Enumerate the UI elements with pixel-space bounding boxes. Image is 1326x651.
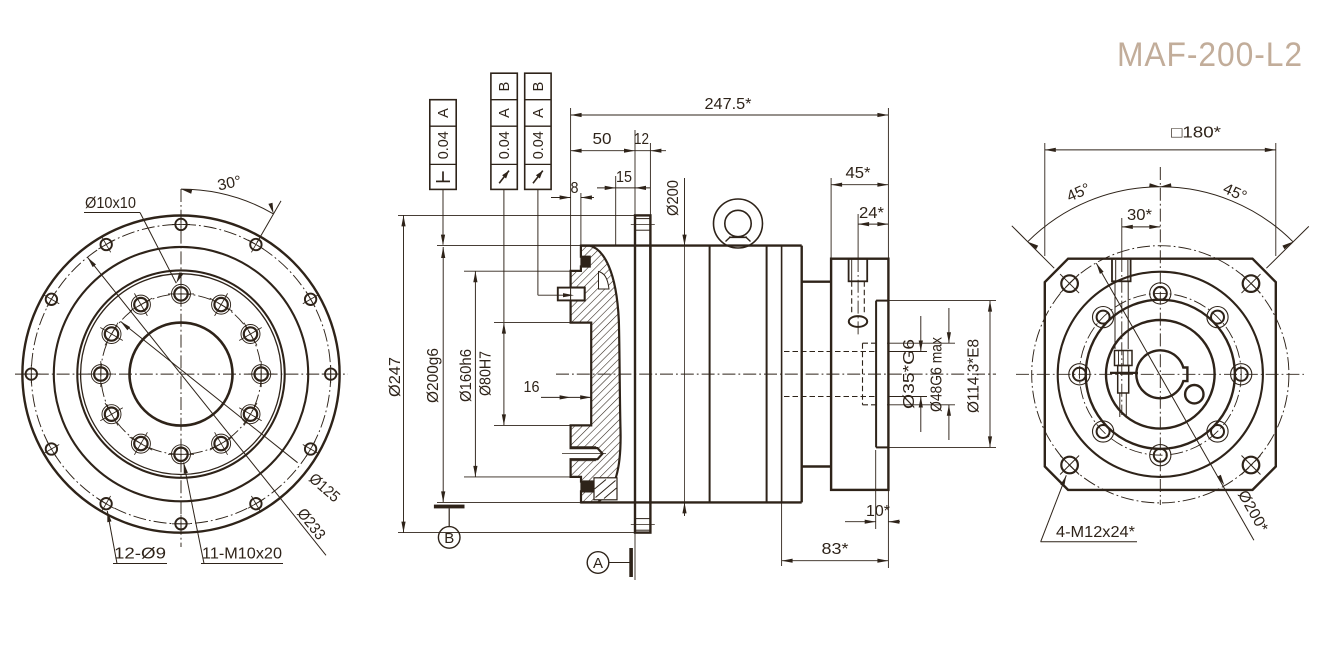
bore D35 with keyway (1136, 350, 1187, 398)
hole 9mm at 240deg (100, 498, 111, 509)
hole 9mm at 180deg (26, 368, 37, 379)
svg-text:MAF-200-L2: MAF-200-L2 (1117, 36, 1303, 74)
dim square180 (1044, 143, 1046, 256)
left view outer circle D247 (22, 216, 339, 533)
rear hole at 180deg (1069, 364, 1090, 385)
recess D114.3 (875, 301, 877, 448)
hole M10 at 210deg (105, 408, 118, 421)
hole 9mm at 150deg (46, 294, 57, 305)
hole M10 at 330deg (244, 408, 257, 421)
svg-text:B: B (497, 82, 513, 92)
dim 247.5 (571, 114, 889, 116)
svg-text:10*: 10* (866, 503, 890, 520)
corner hole M12 (1243, 457, 1260, 474)
M10x20 tapped hole thread lines (571, 446, 597, 448)
corner hole M12 (1061, 275, 1078, 292)
dowel pin 10x10 (558, 288, 585, 301)
hole 9mm at 210deg (46, 443, 57, 454)
svg-text:11-M10x20: 11-M10x20 (202, 546, 282, 563)
svg-text:Ø114.3*E8: Ø114.3*E8 (966, 339, 983, 413)
seal top (581, 257, 590, 267)
dim 8 (551, 197, 571, 199)
dim phi114.3E8 (989, 301, 991, 448)
svg-text:Ø200g6: Ø200g6 (425, 348, 442, 403)
hole M10 at 30deg (244, 327, 257, 340)
svg-text:247.5*: 247.5* (705, 96, 752, 113)
dim 15 (597, 187, 650, 189)
hole 9mm at 330deg (305, 443, 316, 454)
hidden bore D35 (784, 351, 876, 353)
dim phi247 (403, 215, 405, 532)
rear hole at 90deg (1150, 283, 1171, 304)
extension lines bottom (781, 503, 783, 566)
dim 10* (845, 521, 876, 523)
fcf2 (491, 73, 517, 189)
rear hole at 270deg (1150, 445, 1171, 466)
rear hole at 45deg (1207, 307, 1228, 328)
rear hole at 315deg (1207, 421, 1228, 442)
dim 45* (831, 184, 888, 186)
datum B (434, 505, 465, 509)
body joint (83 ref) (781, 246, 783, 503)
dim 30deg radial line (257, 201, 281, 243)
left view bolt circle D233 (31, 224, 330, 523)
svg-text:A: A (593, 555, 603, 572)
body seam 1 (709, 246, 711, 503)
hole 9mm at 30deg (305, 294, 316, 305)
svg-text:0.04: 0.04 (497, 131, 513, 159)
small hole (1185, 385, 1203, 403)
output square flange section (831, 259, 888, 490)
dim 30deg arc (181, 189, 274, 214)
hole M10 at 240deg (134, 437, 147, 450)
svg-text:□180*: □180* (1171, 125, 1221, 142)
dim phi200 leader (1096, 263, 1254, 540)
port hole hidden (851, 281, 853, 313)
svg-text:A: A (436, 108, 452, 118)
circle D85 (1106, 320, 1215, 429)
label phi125 leader (121, 321, 298, 462)
dim phi48G6max (948, 308, 950, 343)
port centerline right view (1121, 218, 1123, 259)
dim phi80H7 (503, 323, 505, 426)
port counterbore (849, 259, 868, 282)
body seam 2 (766, 246, 768, 503)
svg-text:Ø10x10: Ø10x10 (85, 195, 136, 212)
hole 9mm at 270deg (175, 518, 186, 529)
corner hole M12 (1243, 275, 1260, 292)
svg-text:16: 16 (524, 379, 540, 396)
hidden bore D48 (863, 342, 877, 344)
svg-text:45*: 45* (846, 165, 871, 182)
svg-text:B: B (444, 530, 454, 547)
dim 30* (1122, 226, 1161, 228)
svg-text:A: A (497, 108, 513, 118)
dim 83* (782, 560, 889, 562)
extension lines right diameters (876, 300, 996, 302)
hole M10 at 300deg (214, 437, 227, 450)
svg-text:A: A (531, 108, 547, 118)
hole M10 at 150deg (105, 327, 118, 340)
body outline D200 (581, 244, 802, 246)
fcf3 (525, 73, 551, 189)
dim phi160h6 (474, 271, 476, 477)
corner hole M12 (1061, 457, 1078, 474)
dim 12 (635, 150, 666, 152)
body right face (801, 246, 803, 503)
middle view centerline (556, 373, 996, 375)
svg-text:83*: 83* (822, 541, 849, 558)
left view circle D160 outer (77, 270, 284, 477)
dim 16 (541, 396, 591, 398)
datum A (587, 552, 609, 574)
right view centerlines (1016, 373, 1304, 375)
extension lines middle top (570, 108, 572, 270)
svg-text:Ø35*G6: Ø35*G6 (901, 339, 918, 409)
hole 9mm at 120deg (101, 239, 112, 250)
svg-text:24*: 24* (859, 205, 884, 222)
45deg diagonal left (1012, 226, 1054, 268)
circle boss D160 (1058, 272, 1263, 477)
left view centerlines (15, 373, 348, 375)
svg-text:8: 8 (571, 180, 579, 197)
rear hole at 135deg (1093, 307, 1114, 328)
grease screw (1115, 351, 1133, 366)
label phi233 leader (87, 257, 326, 555)
circle D116 (1086, 300, 1235, 449)
left view bolt circle D125 (101, 294, 261, 454)
square flange outline 180 (1045, 259, 1276, 490)
svg-text:Ø160h6: Ø160h6 (458, 349, 475, 402)
svg-text:30*: 30* (1127, 207, 1152, 224)
extension lines left diameters (398, 214, 635, 216)
flange hole top (635, 218, 650, 220)
svg-text:Ø200: Ø200 (665, 180, 682, 216)
dim phi200g6 (442, 247, 444, 502)
bearing bottom (594, 478, 617, 500)
hole M10 at 60deg (214, 298, 227, 311)
mounting flange plate D247 (635, 215, 650, 532)
hole 9mm at 60deg (250, 239, 261, 250)
housing section hatched (571, 246, 621, 503)
bearing pocket top (599, 272, 610, 290)
hole M10 at 180deg (94, 367, 107, 380)
circle D200 ref (1032, 246, 1289, 503)
port top view (1112, 259, 1131, 282)
bolt circle 8 holes (1079, 293, 1241, 455)
hole M10 at 0deg (255, 367, 268, 380)
dim 24* (858, 223, 888, 225)
svg-text:50: 50 (593, 131, 612, 148)
svg-text:12-Ø9: 12-Ø9 (114, 546, 166, 563)
hole 9mm at 300deg (250, 498, 261, 509)
svg-text:Ø48G6 max: Ø48G6 max (929, 337, 946, 412)
svg-text:12: 12 (634, 131, 649, 148)
pin hole 10mm at 90deg (174, 287, 187, 300)
hole M10 at 270deg (174, 448, 187, 461)
cylinder D145 (802, 281, 831, 283)
dim 45deg arcs (1028, 187, 1293, 242)
dim 50 (571, 150, 635, 152)
svg-text:15: 15 (616, 169, 632, 186)
seal bottom (581, 482, 593, 492)
hole 9mm at 0deg (325, 368, 336, 379)
left view bore D80H7 (130, 323, 233, 426)
flange hole bottom (635, 518, 650, 520)
45deg diagonal right (1266, 226, 1308, 268)
svg-text:B: B (531, 82, 547, 92)
svg-text:0.04: 0.04 (436, 131, 452, 159)
svg-text:4-M12x24*: 4-M12x24* (1056, 524, 1135, 541)
svg-text:Ø247: Ø247 (387, 357, 404, 397)
port centerline (857, 214, 859, 259)
left view circle D200g6 (54, 247, 308, 501)
port drill tip ellipse (849, 316, 867, 327)
fcf1 (430, 100, 456, 190)
svg-text:Ø80H7: Ø80H7 (478, 351, 495, 396)
rear hole at 0deg (1231, 364, 1252, 385)
eyebolt (714, 199, 763, 248)
hole 9mm at 90deg (175, 219, 186, 230)
rear hole at 225deg (1093, 421, 1114, 442)
hole M10 at 120deg (134, 298, 147, 311)
svg-text:0.04: 0.04 (531, 131, 547, 159)
dim phi200 leader (684, 178, 686, 245)
dim phi35G6 (920, 316, 922, 352)
left view circle D160 inner (81, 274, 282, 475)
